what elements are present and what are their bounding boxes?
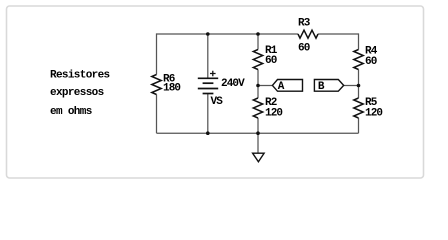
junction node A — [256, 84, 260, 88]
junction bottom VS — [206, 131, 210, 135]
resistor R1 — [253, 45, 277, 70]
wire node A tap — [258, 85, 272, 87]
resistor R5 — [354, 97, 383, 120]
wire VS branch lower — [207, 94, 209, 134]
wire top bus left segment — [157, 33, 299, 35]
svg-text:60: 60 — [265, 55, 277, 67]
wire left branch upper — [156, 33, 158, 74]
svg-text:expressos: expressos — [50, 87, 104, 99]
wire VS branch upper — [207, 34, 209, 78]
junction top VS — [206, 32, 210, 36]
wire node B tap — [344, 85, 359, 87]
svg-text:VS: VS — [211, 96, 224, 108]
wire R2 bottom lead — [257, 118, 259, 133]
wire bottom bus — [157, 132, 359, 134]
resistor R3 — [298, 17, 318, 54]
voltage source VS 240V — [198, 71, 245, 108]
svg-text:em ohms: em ohms — [50, 106, 92, 118]
node A flag — [272, 80, 302, 94]
ground — [253, 153, 265, 162]
svg-text:240V: 240V — [221, 78, 245, 90]
wire R4 branch upper lead — [358, 33, 360, 49]
svg-text:180: 180 — [163, 83, 180, 95]
junction node B — [357, 84, 361, 88]
resistor R4 — [354, 46, 378, 70]
svg-text:60: 60 — [365, 56, 377, 68]
wire R4-R5 middle lead through node B — [358, 70, 360, 99]
svg-text:60: 60 — [298, 43, 310, 55]
wire top bus right segment — [318, 33, 359, 35]
svg-text:120: 120 — [365, 108, 382, 120]
resistor R2 — [253, 97, 282, 120]
svg-text:120: 120 — [265, 108, 282, 120]
node B flag — [314, 80, 343, 94]
wire R1 branch upper lead — [257, 34, 259, 50]
wire R1-R2 middle lead through node A — [257, 70, 259, 99]
junction top R1 — [256, 32, 260, 36]
junction bottom ground — [256, 131, 260, 135]
svg-text:R3: R3 — [298, 17, 311, 29]
wire ground stem — [257, 133, 259, 153]
svg-text:Resistores: Resistores — [50, 70, 110, 82]
resistor R6 — [152, 74, 181, 95]
wire R5 bottom lead — [358, 118, 360, 133]
note text "Resistores expressos em ohms" — [50, 70, 110, 118]
wire left branch lower — [156, 95, 158, 134]
